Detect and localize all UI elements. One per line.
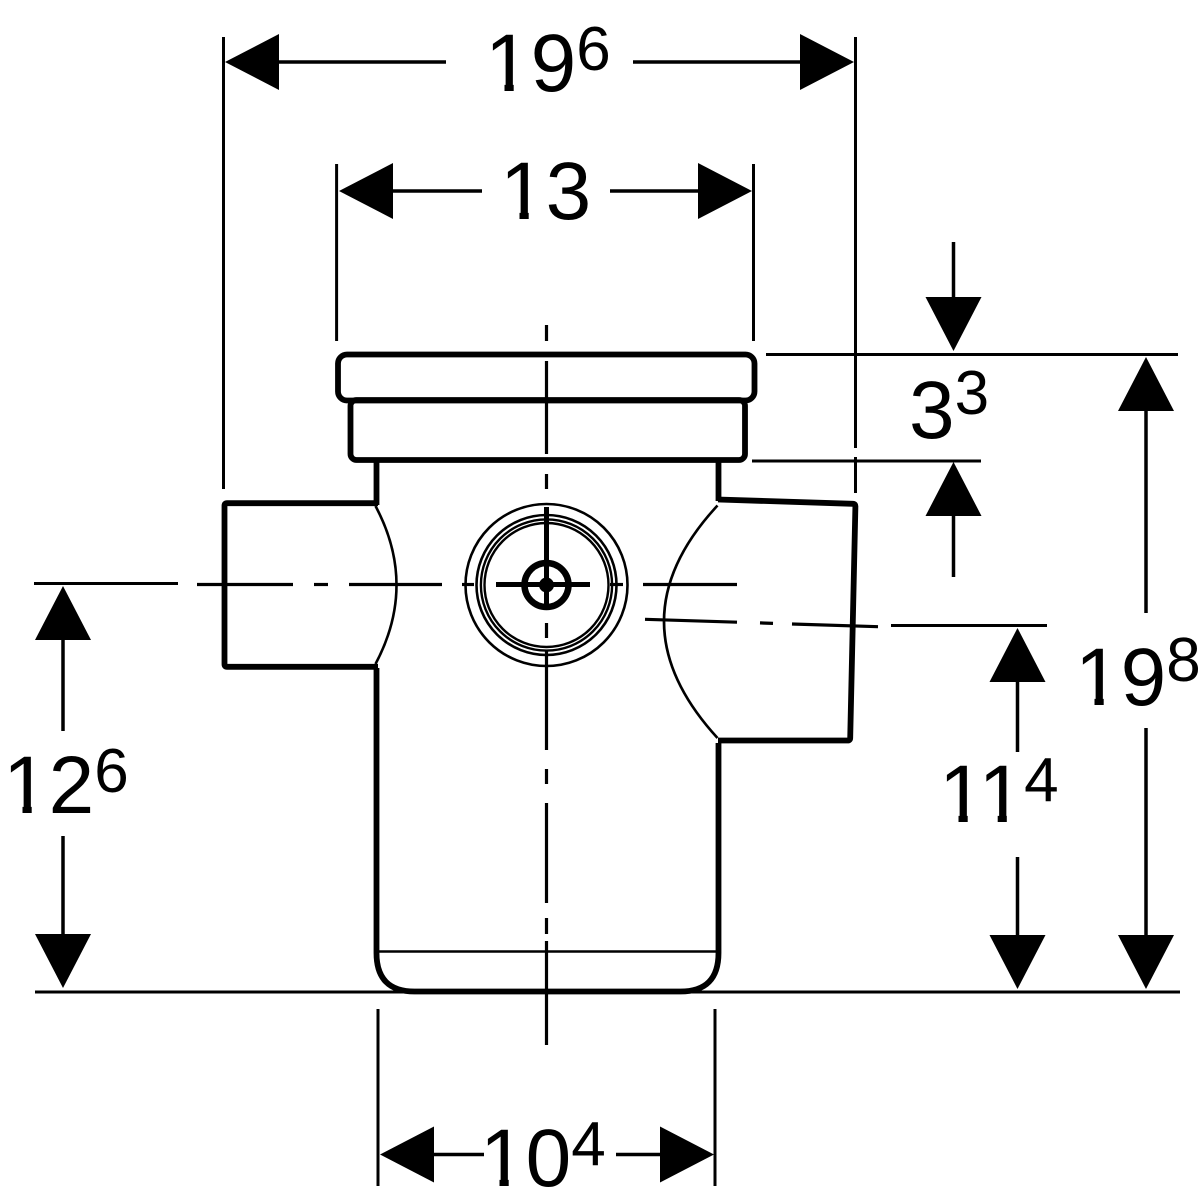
dim 10.4 horizontal bottom (380, 1127, 714, 1183)
wire extension line bottom left for dim 10.4 (377, 1009, 380, 1186)
node sloped centerline of right outlet (645, 619, 878, 626)
svg-text:13: 13 (500, 146, 591, 237)
wire extension line bottom right for dim 10.4 (714, 1009, 717, 1186)
wire extension line flange bottom level (752, 460, 981, 463)
node horizontal centerline of left inlet (197, 583, 737, 586)
wire extension line outlet axis level (891, 624, 1047, 627)
wire extension line flange top level (766, 353, 1178, 356)
wire right port intersection arc (664, 506, 718, 739)
wire extension line left for dim 13 (335, 164, 338, 341)
wire inner bottom edge line (379, 950, 717, 953)
dim 19.6 horizontal top (225, 34, 854, 90)
right outlet port (718, 500, 855, 741)
wire extension line right for dim 19.6 (854, 37, 857, 448)
dim 19.8 vertical far right (1118, 357, 1174, 989)
wire extension line left for dim 19.6 (222, 37, 225, 489)
left inlet port (225, 503, 379, 667)
svg-text:196: 196 (485, 15, 611, 109)
svg-text:33: 33 (909, 359, 989, 456)
node drain opening circles (466, 504, 628, 666)
flange tier2 lower socket (351, 400, 746, 460)
wire extension line inlet axis level left (34, 582, 178, 585)
svg-text:114: 114 (939, 746, 1059, 840)
dim 13 horizontal (339, 163, 752, 219)
node vertical centerline of body (545, 325, 548, 1045)
wire body left wall upper segment (374, 458, 380, 505)
wire body right wall upper segment (716, 458, 722, 501)
wire extension line right for dim 13 (752, 164, 755, 341)
dim 3.3 vertical right of flange (926, 242, 982, 577)
svg-text:126: 126 (3, 737, 129, 831)
wire body lower outline with rounded bottom (377, 668, 719, 992)
wire dashed projection of right port edge (854, 457, 857, 493)
wire baseline ground line (35, 991, 1180, 994)
wire left port intersection arc (376, 506, 397, 664)
dim 12.6 vertical left (35, 586, 91, 988)
svg-text:198: 198 (1075, 626, 1200, 723)
flange tier1 top socket (338, 355, 755, 401)
dim 11.4 vertical right (990, 628, 1046, 989)
